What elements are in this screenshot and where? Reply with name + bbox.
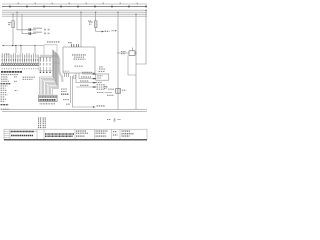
column tick 5	[77, 6, 79, 8]
fuse F1	[12, 21, 15, 28]
battery B1 label	[108, 88, 114, 90]
output wire 3	[76, 73, 95, 83]
column numbers	[18, 3, 138, 5]
node right drop 2	[135, 14, 136, 15]
connector right text	[63, 99, 69, 101]
cell5 text	[113, 131, 117, 133]
bottom rail 1	[2, 109, 147, 111]
cell4 text	[96, 131, 108, 136]
terminal strip rail	[1, 65, 40, 67]
column tick 6	[94, 6, 96, 8]
plc text line2b	[74, 58, 86, 60]
relay K1 box	[129, 51, 135, 56]
node right drop 1	[117, 12, 118, 13]
wire number label	[88, 20, 92, 22]
vertical ref texts	[39, 118, 46, 129]
fuse F2 drop	[95, 12, 97, 31]
node right edge	[145, 10, 146, 11]
wire drop to contacts 3	[34, 46, 36, 54]
arrow left end	[3, 45, 5, 46]
wire box to band	[53, 62, 60, 64]
contact marks row2	[44, 33, 46, 35]
arrow PE	[93, 106, 96, 108]
aux loop	[128, 55, 136, 75]
label S1	[33, 28, 42, 29]
node main wire	[34, 45, 35, 46]
cable label block	[61, 89, 67, 91]
title block bottom edge	[4, 139, 147, 141]
wire down pair 2 + run to PE	[72, 76, 93, 107]
node K drop	[16, 12, 17, 13]
node F2	[95, 12, 96, 13]
battery B1 box	[116, 89, 121, 94]
touchscreen box	[44, 45, 57, 56]
wire down pair	[70, 76, 72, 103]
plc bottom labels	[73, 75, 77, 77]
connector text	[39, 99, 56, 101]
terminal contact marks	[2, 59, 39, 61]
arrow F2 run	[102, 31, 105, 33]
switch S2	[28, 32, 31, 35]
hmi pin labels	[40, 63, 51, 66]
label under pair	[66, 103, 71, 105]
column tick 9	[145, 6, 147, 8]
cell3 text	[76, 131, 88, 136]
plc text line1	[72, 54, 86, 56]
right drop 2	[135, 14, 137, 109]
right edge wire	[136, 10, 146, 64]
relay K1 wire	[118, 52, 129, 54]
arrow mark c	[20, 45, 22, 46]
switch S1	[28, 28, 31, 31]
wire drop to contacts 1	[15, 46, 17, 54]
psu wire label	[97, 92, 104, 94]
hmi terminal box	[39, 57, 53, 71]
psu text	[97, 75, 102, 77]
chevrons	[93, 73, 97, 88]
output wire 2	[79, 73, 95, 79]
plc pin labels	[68, 42, 72, 44]
label F2 run	[105, 30, 110, 32]
output wire 4	[76, 86, 95, 88]
notes text block	[1, 72, 36, 109]
terminal strip circles	[1, 63, 39, 65]
node at F1 drop	[12, 14, 13, 15]
label PE run	[97, 105, 106, 107]
plc pin numbers	[64, 70, 70, 72]
output wire 1 label	[82, 71, 92, 73]
plc top pins S	[72, 44, 79, 47]
node K1	[118, 53, 119, 54]
label F1	[8, 22, 11, 23]
connector circles	[39, 96, 57, 98]
wire F1 drop	[12, 14, 14, 45]
node K1 right	[136, 53, 137, 54]
plc text line3	[75, 65, 84, 67]
column tick 2	[26, 6, 28, 8]
arrow mark a	[12, 45, 14, 46]
bus rail L2	[2, 11, 147, 13]
label near drop1	[112, 30, 115, 32]
wire switch row 1	[17, 12, 36, 30]
column tick 4	[60, 6, 62, 8]
output wire 4 label	[80, 84, 89, 86]
touchscreen label	[47, 41, 60, 43]
plc bottom pins	[65, 73, 69, 77]
right drop 1	[117, 12, 119, 109]
hmi terminal dots	[40, 72, 51, 74]
hmi pins	[40, 57, 50, 61]
node plc drop	[80, 12, 81, 13]
hmi pins below	[40, 67, 50, 71]
terminal number ticks	[2, 68, 39, 69]
connector box XT	[39, 95, 58, 101]
plc drop from bus	[80, 12, 82, 47]
contact marks row1	[44, 29, 46, 31]
label S2	[33, 32, 42, 33]
label F2	[89, 21, 93, 23]
terminal labels	[2, 55, 39, 58]
relay K1 label	[121, 51, 126, 53]
psu label G1	[99, 67, 106, 72]
wire F2 to psu	[96, 31, 103, 33]
revision table	[4, 129, 120, 139]
cell6 text	[122, 131, 134, 136]
frame top line	[2, 3, 147, 5]
title block outer	[4, 129, 147, 139]
psu notes	[96, 82, 108, 89]
bus rail L1	[2, 9, 147, 11]
bus rail L3	[2, 13, 147, 15]
column tick 1	[9, 6, 11, 8]
pe note symbol	[113, 118, 116, 122]
plc box LOGO	[63, 47, 95, 73]
wire drop to contacts 2	[20, 46, 22, 54]
output wire 2 label	[81, 76, 91, 78]
column tick 3	[43, 6, 45, 8]
column tick 7	[111, 6, 113, 8]
cable gray band	[40, 56, 63, 82]
wire switch row 2	[22, 14, 36, 33]
battery marks	[116, 89, 118, 94]
cascade wires to connector	[40, 50, 59, 95]
battery sub label	[107, 94, 114, 96]
bracket wire	[4, 54, 9, 58]
output wire 1	[82, 73, 95, 75]
plc text line2	[74, 56, 84, 58]
frame column ruler	[2, 6, 147, 8]
terminal strip pins	[2, 53, 38, 63]
battery right label	[122, 89, 127, 91]
connector bottom ticks	[40, 103, 55, 105]
battery note rows	[104, 85, 107, 87]
relay K1 pin	[131, 48, 133, 51]
fuse F2	[94, 21, 97, 28]
relay K1 to right rail	[135, 52, 136, 54]
arrow mark b	[15, 45, 17, 46]
node at plc top	[81, 47, 82, 48]
column tick 8	[128, 6, 130, 8]
wire main horizontal	[3, 45, 45, 47]
bus rail N	[2, 15, 147, 17]
title text cell	[11, 131, 34, 133]
project cell text	[45, 133, 74, 135]
psu wire out	[105, 92, 113, 94]
bottom rail 2	[2, 111, 147, 113]
output wire 3 label	[80, 80, 89, 82]
psu box G1	[96, 74, 109, 80]
